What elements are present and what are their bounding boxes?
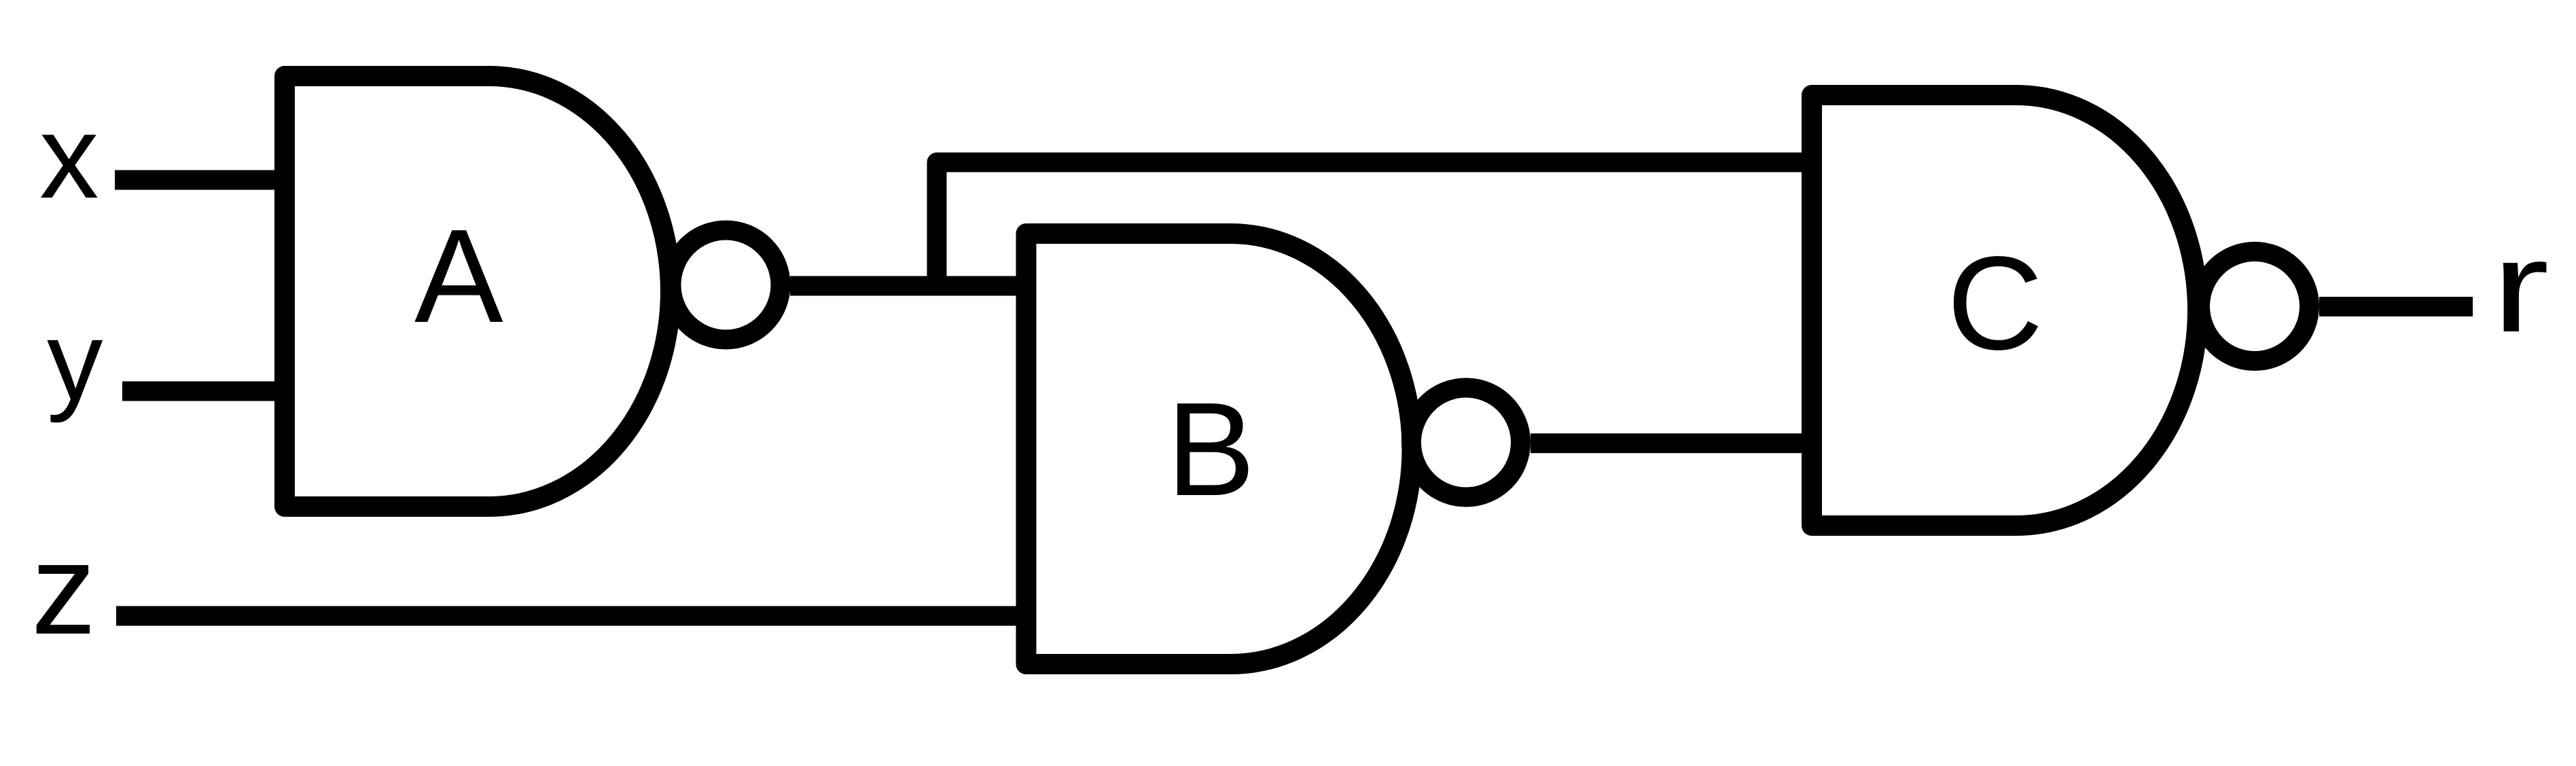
NAND gate B body [1026,234,1412,664]
NAND gate B inversion bubble [1412,388,1521,497]
wire y input [122,382,289,401]
label z [31,517,96,661]
svg-text:z: z [31,517,96,661]
wire A output to B input [790,276,1031,296]
svg-text:A: A [414,202,503,350]
svg-text:B: B [1166,375,1255,524]
wire r output [2319,297,2473,316]
label B [1166,375,1255,524]
NAND gate C body [1812,95,2198,526]
svg-text:x: x [39,91,99,223]
NAND gate C inversion bubble [2200,252,2310,361]
svg-text:C: C [1947,229,2043,378]
label y [47,298,103,423]
label r [2492,214,2550,359]
label C [1947,229,2043,378]
wire branch from A output up and over to C input (node n1) [937,162,1817,292]
NAND gate A inversion bubble [671,230,781,340]
wire z input [116,606,1031,626]
label x [39,91,99,223]
wire B output to C input [1531,433,1817,453]
svg-text:r: r [2492,214,2550,359]
wire x input [115,170,289,190]
label A [414,202,503,350]
svg-text:y: y [47,298,103,423]
NAND gate A body [285,76,670,507]
